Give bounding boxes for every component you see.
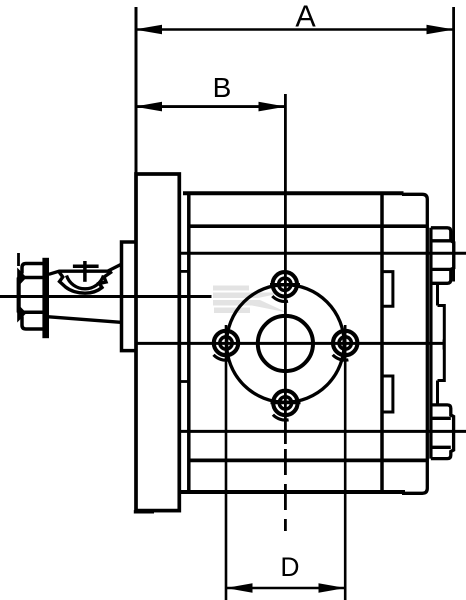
pump body left edge bbox=[187, 193, 191, 491]
top port centerline bbox=[179, 252, 466, 255]
pump body bottom edge bbox=[181, 490, 405, 494]
dimension B line bbox=[137, 105, 286, 108]
dimension B extension / port vertical centerline (solid part) bbox=[284, 94, 287, 444]
shaft nut bbox=[17, 264, 43, 330]
drive shaft bottom edge bbox=[49, 317, 121, 323]
gear bore circle bbox=[258, 316, 313, 371]
dimension A line bbox=[137, 28, 453, 31]
hex plug P1 (top) bbox=[431, 228, 454, 283]
bolt hole S bbox=[271, 391, 301, 420]
dimension A right arrowhead bbox=[427, 25, 455, 35]
bolt hole E bbox=[333, 325, 358, 600]
connector bar lower (flange/body joint) bbox=[179, 380, 190, 383]
main shaft centerline bbox=[0, 295, 212, 298]
cover tab upper bbox=[382, 272, 393, 307]
rear cover outline bbox=[402, 194, 427, 493]
cover tab lower bbox=[382, 376, 393, 412]
drive shaft top edge bbox=[49, 265, 121, 275]
watermark logo bbox=[213, 286, 287, 314]
dimension D line bbox=[226, 587, 345, 590]
woodruff key arc bbox=[67, 276, 104, 289]
port vertical centerline (dashed part) bbox=[284, 449, 287, 531]
flange bottom foot line bbox=[134, 510, 154, 513]
woodruff key pocket outline bbox=[59, 272, 112, 294]
bottom port centerline bbox=[179, 430, 466, 433]
shaft thread end tick bbox=[17, 253, 20, 266]
bearing plate bbox=[122, 242, 137, 351]
port boss bottom edge bbox=[189, 459, 427, 463]
top plug rear stub bbox=[436, 283, 439, 305]
bottom plug rear stub bbox=[436, 381, 439, 405]
hex plug P2 (bottom) bbox=[431, 405, 454, 459]
dimension A right extension line bbox=[452, 7, 455, 282]
washer bbox=[43, 259, 48, 338]
dimension D right arrowhead bbox=[319, 583, 346, 593]
bolt hole N bbox=[270, 272, 300, 301]
port boss top edge bbox=[189, 224, 427, 228]
dimension A left arrowhead bbox=[135, 25, 163, 35]
rear center boss bbox=[438, 306, 445, 381]
key center cross horizontal bbox=[73, 265, 99, 269]
rear plug base line bbox=[429, 228, 432, 459]
pump body top edge bbox=[183, 191, 404, 195]
connector bar upper (flange/body joint) bbox=[179, 270, 189, 273]
body / cover parting line bbox=[380, 193, 384, 491]
svg-text:D: D bbox=[280, 552, 299, 582]
bolt circle bbox=[227, 285, 345, 403]
gear centerline end tick bbox=[443, 340, 446, 350]
bolt hole W bbox=[214, 325, 239, 600]
key center cross vertical bbox=[83, 261, 87, 282]
gear horizontal centerline bbox=[136, 342, 445, 345]
dimension B right arrowhead bbox=[259, 102, 286, 112]
mounting flange bbox=[136, 174, 179, 511]
svg-text:A: A bbox=[295, 0, 316, 34]
dimension D left arrowhead bbox=[226, 583, 253, 593]
svg-text:B: B bbox=[213, 72, 232, 103]
flange left edge / A-B extension line bbox=[135, 7, 138, 174]
dimension B left arrowhead bbox=[135, 102, 163, 112]
